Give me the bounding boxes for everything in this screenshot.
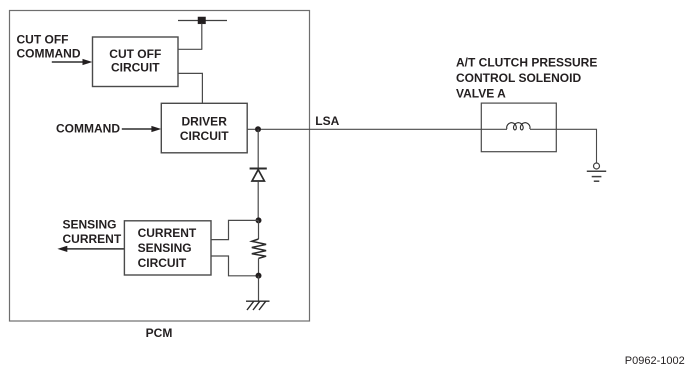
upper junction node: [256, 217, 262, 223]
wire: current sensing circuit to lower resistor node: [211, 256, 259, 276]
current sensing circuit box: [124, 221, 211, 275]
svg-text:VALVE A: VALVE A: [456, 87, 506, 101]
svg-text:LSA: LSA: [315, 114, 339, 128]
junction node on LSA line: [255, 126, 261, 132]
svg-text:CURRENT: CURRENT: [138, 226, 197, 240]
arrow: cut off command into cut off circuit: [52, 59, 93, 65]
lower junction node: [256, 273, 262, 279]
svg-text:CIRCUIT: CIRCUIT: [180, 129, 229, 143]
earth ground G1 (circle + bars): [587, 163, 606, 181]
svg-text:PCM: PCM: [146, 326, 173, 340]
chassis ground (hatched): [246, 301, 270, 310]
wire: cut off circuit to driver circuit: [178, 73, 202, 103]
svg-text:COMMAND: COMMAND: [17, 46, 81, 60]
svg-text:CONTROL SOLENOID: CONTROL SOLENOID: [456, 71, 581, 85]
resistor R1 (zigzag): [252, 239, 266, 258]
svg-text:DRIVER: DRIVER: [182, 115, 228, 129]
wire: resistor to lower node: [258, 258, 260, 275]
svg-text:A/T CLUTCH PRESSURE: A/T CLUTCH PRESSURE: [456, 56, 597, 70]
PCM enclosure box: [10, 11, 310, 322]
power supply symbol (B+): [178, 17, 227, 24]
svg-text:CUT OFF: CUT OFF: [17, 32, 69, 46]
svg-text:CIRCUIT: CIRCUIT: [138, 256, 187, 270]
svg-text:COMMAND: COMMAND: [56, 122, 120, 136]
wire: lower node to chassis ground: [258, 276, 260, 301]
wire: solenoid box to ground: [556, 129, 596, 163]
inductor L1 coil: [507, 123, 530, 130]
wire: coil to right side of box: [530, 128, 556, 130]
wire: power symbol down to junction: [201, 24, 203, 50]
wire: cut off circuit right edge to power drop: [178, 48, 202, 50]
diode D1 (flyback, cathode up): [250, 169, 267, 182]
arrow: command into driver circuit: [122, 126, 162, 132]
svg-text:P0962-1002: P0962-1002: [625, 355, 685, 367]
wire: upper node to resistor: [258, 220, 260, 239]
cut off circuit U1 box: [93, 37, 179, 87]
svg-text:CUT OFF: CUT OFF: [109, 47, 161, 61]
wire: LSA line driver circuit to solenoid box: [247, 128, 481, 130]
svg-text:SENSING: SENSING: [138, 241, 192, 255]
svg-text:CIRCUIT: CIRCUIT: [111, 61, 160, 75]
wire: upper node to current sensing circuit: [211, 220, 259, 239]
solenoid valve box: [481, 103, 556, 152]
driver circuit box: [161, 103, 247, 153]
svg-text:CURRENT: CURRENT: [63, 232, 122, 246]
wire: node down to diode: [257, 129, 259, 167]
wire: into coil: [481, 128, 507, 130]
svg-text:SENSING: SENSING: [63, 218, 117, 232]
wire: diode down to upper resistor node: [257, 182, 259, 221]
arrow: sensing current out of current sensing circuit: [57, 246, 124, 252]
